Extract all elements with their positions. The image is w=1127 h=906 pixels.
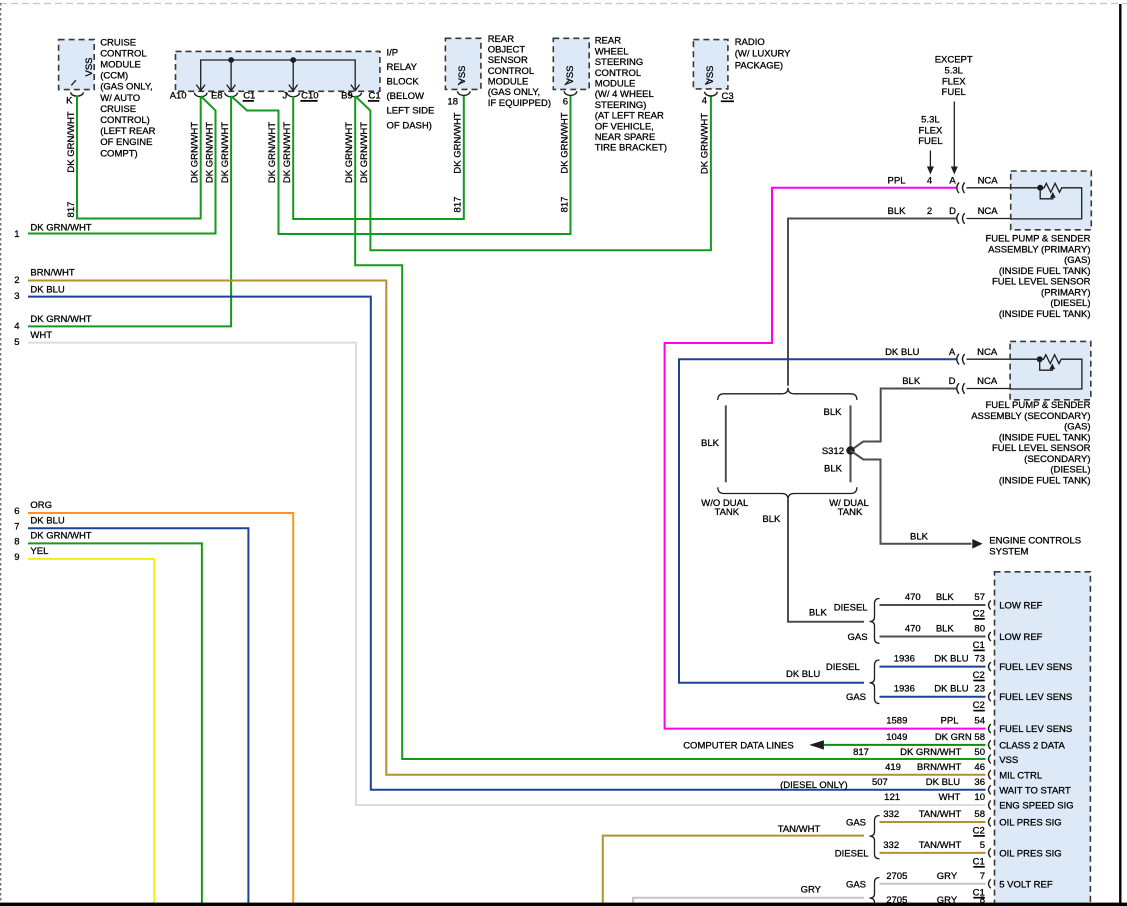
svg-text:1: 1 <box>14 229 19 240</box>
svg-text:LOW REF: LOW REF <box>999 601 1042 612</box>
wire 4 DK GRN/WHT from left to relay E8 <box>14 96 231 332</box>
label W/ DUAL TANK <box>829 498 869 518</box>
connector arc pin 54 <box>989 724 991 733</box>
svg-text:CONTROL: CONTROL <box>100 48 146 59</box>
page frame left <box>0 3 2 906</box>
wire BLK gas LOW REF row to PCM pin 80 <box>880 624 986 637</box>
svg-text:FLEX: FLEX <box>919 125 943 136</box>
svg-text:J: J <box>283 90 288 101</box>
wire DK BLU from secondary fuel pump pin A to PCM FUEL LEV SENS brace <box>679 347 957 683</box>
svg-text:DK BLU: DK BLU <box>885 347 919 358</box>
wire 1 DK GRN/WHT from left into relay A10 <box>14 96 215 240</box>
wire DK BLU diesel FUEL LEV SENS row to PCM pin 73 <box>880 654 986 667</box>
svg-text:A: A <box>949 176 956 187</box>
wire 6 ORG from left to bottom edge <box>14 500 293 906</box>
svg-text:6: 6 <box>563 97 568 108</box>
svg-text:C2: C2 <box>973 609 985 620</box>
svg-text:OF DASH): OF DASH) <box>387 120 432 131</box>
svg-text:C2: C2 <box>973 826 985 837</box>
wire DK GRN/WHT relay B9 to PCM VSS pin 50 <box>344 96 986 759</box>
svg-text:S312: S312 <box>822 446 844 457</box>
svg-text:5.3L: 5.3L <box>921 115 940 126</box>
connector label C3 <box>721 91 734 102</box>
svg-text:DIESEL: DIESEL <box>834 603 868 614</box>
svg-text:SYSTEM: SYSTEM <box>989 547 1028 558</box>
I/P relay block text label <box>387 48 435 132</box>
svg-text:(INSIDE FUEL TANK): (INSIDE FUEL TANK) <box>999 475 1091 486</box>
svg-text:332: 332 <box>883 840 899 851</box>
wire BLK w/ dual tank lower branch <box>824 455 850 483</box>
arrowhead to engine controls system <box>972 539 982 549</box>
connector label C2 (pin 23) <box>973 700 985 711</box>
svg-text:TANK: TANK <box>714 507 739 518</box>
svg-text:C3: C3 <box>722 91 734 102</box>
svg-text:D: D <box>949 206 956 217</box>
svg-text:BLK: BLK <box>809 607 828 618</box>
svg-text:OF VEHICLE,: OF VEHICLE, <box>595 121 654 132</box>
svg-text:PPL: PPL <box>888 176 906 187</box>
page frame top <box>0 3 1127 5</box>
NCA stub at primary pin D <box>967 206 1011 219</box>
pin K of CCM <box>66 92 83 106</box>
connector arc pin 23 <box>989 692 991 701</box>
svg-text:ASSEMBLY (SECONDARY): ASSEMBLY (SECONDARY) <box>971 411 1090 422</box>
svg-text:73: 73 <box>974 654 985 665</box>
NCA stub at secondary pin D <box>967 376 1011 388</box>
arrowhead to pin E8 <box>227 85 236 91</box>
svg-text:1589: 1589 <box>886 716 907 727</box>
svg-text:507: 507 <box>872 777 888 788</box>
svg-text:DK GRN/WHT: DK GRN/WHT <box>559 112 570 173</box>
svg-text:MIL CTRL: MIL CTRL <box>999 770 1042 781</box>
svg-text:4: 4 <box>14 321 19 332</box>
svg-text:BLK: BLK <box>936 624 955 635</box>
connector arcs at secondary pin A <box>957 354 965 365</box>
primary fuel pump and sender assembly box <box>1011 171 1092 230</box>
svg-text:CONTROL: CONTROL <box>488 66 534 77</box>
wire GRY gas 5 VOLT REF row to PCM pin 7 <box>880 871 986 884</box>
pin 18 of rear object sensor <box>447 91 470 107</box>
svg-text:FUEL PUMP & SENDER: FUEL PUMP & SENDER <box>985 400 1090 411</box>
svg-text:REAR: REAR <box>488 34 515 45</box>
svg-text:BLK: BLK <box>762 514 781 525</box>
svg-text:DK GRN/WHT: DK GRN/WHT <box>30 223 91 234</box>
svg-text:5: 5 <box>980 840 985 851</box>
svg-text:WHT: WHT <box>30 330 52 341</box>
wire BLK diesel LOW REF row to PCM pin 57 <box>880 592 986 605</box>
svg-text:50: 50 <box>974 747 985 758</box>
arrowhead to pin J <box>289 85 298 91</box>
svg-text:2: 2 <box>14 275 19 286</box>
svg-text:A10: A10 <box>170 90 187 101</box>
label 5.3L FLEX FUEL with arrow <box>918 115 943 175</box>
svg-text:GAS: GAS <box>846 879 866 890</box>
connector arc pin 57 <box>989 601 991 610</box>
secondary fuel pump and sender assembly box <box>1010 341 1091 399</box>
labels on VSS row pin 50 <box>853 747 985 758</box>
page frame right black line <box>1119 4 1121 906</box>
svg-text:BLK: BLK <box>824 407 843 418</box>
connector arcs at primary pin A <box>957 183 965 194</box>
svg-text:TAN/WHT: TAN/WHT <box>919 809 962 820</box>
svg-text:470: 470 <box>905 592 921 603</box>
rear wheel steering text label <box>595 36 667 154</box>
svg-text:(AT LEFT REAR: (AT LEFT REAR <box>595 111 664 122</box>
svg-text:C2: C2 <box>973 700 985 711</box>
svg-text:419: 419 <box>885 762 901 773</box>
connector label C2 (pin 57) <box>973 609 985 620</box>
connector arc pin 58 oil <box>989 818 991 827</box>
svg-text:3: 3 <box>14 291 19 302</box>
svg-text:5: 5 <box>14 337 19 348</box>
NCA stub at secondary pin A <box>967 347 1011 359</box>
wire 7 DK BLU from left to bottom edge <box>14 516 248 906</box>
svg-text:DK GRN/WHT: DK GRN/WHT <box>267 122 278 183</box>
svg-text:(SECONDARY): (SECONDARY) <box>1024 454 1090 465</box>
brace for FUEL LEV SENS diesel/gas pair <box>826 660 880 704</box>
svg-text:DIESEL: DIESEL <box>826 662 860 673</box>
svg-text:BLK: BLK <box>936 592 955 603</box>
wire PPL from primary fuel pump pin A to PCM FUEL LEV SENS pin 54 <box>665 176 986 729</box>
wire 8 DK GRN/WHT from left to bottom edge <box>14 530 202 906</box>
svg-text:D: D <box>949 376 956 387</box>
svg-text:ENG SPEED SIG: ENG SPEED SIG <box>999 801 1073 812</box>
svg-text:(INSIDE FUEL TANK): (INSIDE FUEL TANK) <box>999 432 1091 443</box>
wire BLK from S312 to engine controls system <box>851 451 972 544</box>
wire BLK w/o dual tank branch <box>701 405 726 482</box>
svg-text:DK GRN/WHT: DK GRN/WHT <box>453 112 464 173</box>
svg-text:4: 4 <box>702 96 707 107</box>
fuel level sensor resistor inside secondary box <box>1010 355 1082 389</box>
svg-text:W/ AUTO: W/ AUTO <box>100 93 140 104</box>
svg-text:(DIESEL ONLY): (DIESEL ONLY) <box>780 780 848 791</box>
svg-text:DK GRN: DK GRN <box>935 732 972 743</box>
svg-text:23: 23 <box>974 684 985 695</box>
svg-text:E8: E8 <box>211 90 223 101</box>
svg-text:5.3L: 5.3L <box>944 65 963 76</box>
label EXCEPT 5.3L FLEX FUEL with arrow <box>935 55 973 175</box>
svg-text:EXCEPT: EXCEPT <box>935 55 973 66</box>
svg-text:NCA: NCA <box>977 347 998 358</box>
fuel level sensor resistor inside primary box <box>1011 183 1082 219</box>
svg-text:C1: C1 <box>243 91 255 102</box>
svg-text:7: 7 <box>14 522 19 533</box>
NCA stub at primary pin A <box>967 176 1011 188</box>
connector arc pin 10 <box>989 801 991 810</box>
svg-text:CLASS 2 DATA: CLASS 2 DATA <box>999 740 1065 751</box>
arrowhead to pin B9 <box>351 85 360 91</box>
svg-text:(LEFT REAR: (LEFT REAR <box>100 126 155 137</box>
svg-text:CONTROL): CONTROL) <box>100 115 150 126</box>
svg-text:9: 9 <box>14 552 19 563</box>
svg-text:CONTROL: CONTROL <box>595 68 641 79</box>
engine controls system text label <box>989 536 1081 558</box>
svg-text:C1: C1 <box>369 91 381 102</box>
module rear object sensor box <box>445 38 481 89</box>
svg-text:COMPT): COMPT) <box>100 148 137 159</box>
svg-text:STEERING: STEERING <box>595 57 644 68</box>
svg-text:DIESEL: DIESEL <box>835 848 869 859</box>
svg-text:NCA: NCA <box>977 376 998 387</box>
wire DK GRN/WHT relay B9 branch to radio pin 4 <box>355 96 711 250</box>
svg-text:TAN/WHT: TAN/WHT <box>919 840 962 851</box>
svg-text:36: 36 <box>974 777 985 788</box>
connector label C2 (pin 73) <box>973 670 985 681</box>
svg-text:PPL: PPL <box>941 716 959 727</box>
svg-text:80: 80 <box>974 624 985 635</box>
svg-text:LOW REF: LOW REF <box>999 632 1042 643</box>
svg-text:54: 54 <box>974 716 985 727</box>
svg-text:COMPUTER DATA LINES: COMPUTER DATA LINES <box>683 740 794 751</box>
rear object sensor text label <box>488 34 551 109</box>
wire GRY from bottom edge to 5 VOLT REF brace <box>633 884 864 906</box>
wire 5 WHT from left to PCM ENG SPEED SIG pin 10 <box>14 330 985 805</box>
connector arc pin 80 <box>989 632 991 641</box>
connector label C1 <box>243 91 256 102</box>
svg-text:GAS: GAS <box>848 632 868 643</box>
svg-text:58: 58 <box>974 732 985 743</box>
svg-text:(W/ LUXURY: (W/ LUXURY <box>735 49 791 60</box>
svg-text:PACKAGE): PACKAGE) <box>735 60 783 71</box>
svg-text:TAN/WHT: TAN/WHT <box>778 824 821 835</box>
svg-text:SENSOR: SENSOR <box>488 55 528 66</box>
svg-text:NCA: NCA <box>978 206 999 217</box>
svg-text:6: 6 <box>14 506 19 517</box>
svg-text:817: 817 <box>853 747 869 758</box>
pin J <box>283 90 300 101</box>
connector arc pin 7 <box>989 879 991 888</box>
connector arcs at primary pin D <box>957 213 965 224</box>
svg-text:BLK: BLK <box>902 376 921 387</box>
wire DK GRN/WHT relay E8 branch to rear wheel steering pin 6 <box>231 96 570 234</box>
svg-text:DK GRN/WHT: DK GRN/WHT <box>204 122 215 183</box>
svg-text:5 VOLT REF: 5 VOLT REF <box>999 879 1053 890</box>
svg-text:DK BLU: DK BLU <box>30 284 64 295</box>
svg-text:57: 57 <box>974 592 985 603</box>
brace for OIL PRES SIG gas/diesel pair <box>835 816 880 860</box>
svg-text:C10: C10 <box>301 91 318 102</box>
wire BLK from secondary fuel pump pin D to S312 <box>852 376 957 450</box>
splice S312 <box>822 446 855 457</box>
svg-text:GAS: GAS <box>846 692 866 703</box>
connector arc pin 58 <box>989 740 991 749</box>
svg-text:DK GRN/WHT: DK GRN/WHT <box>66 111 77 172</box>
connector label C1 (5 volt ref gas) <box>973 887 985 898</box>
connector label C1 (B9) <box>368 91 381 102</box>
svg-text:1936: 1936 <box>894 684 915 695</box>
svg-text:817: 817 <box>559 197 570 213</box>
svg-text:46: 46 <box>974 762 985 773</box>
pin A10 <box>170 90 207 101</box>
module rear wheel steering box <box>553 38 589 89</box>
svg-text:7: 7 <box>980 871 985 882</box>
svg-text:ORG: ORG <box>30 500 52 511</box>
svg-text:FUEL: FUEL <box>918 136 942 147</box>
svg-text:BLK: BLK <box>824 464 843 475</box>
svg-text:DK GRN/WHT: DK GRN/WHT <box>30 314 91 325</box>
svg-text:CRUISE: CRUISE <box>100 104 136 115</box>
wire DK GRN/WHT 817 from CCM pin K to relay block A10 <box>66 96 201 219</box>
svg-text:DK GRN/WHT: DK GRN/WHT <box>700 113 711 174</box>
svg-text:4: 4 <box>927 176 932 187</box>
svg-text:OF ENGINE: OF ENGINE <box>100 137 152 148</box>
svg-text:NCA: NCA <box>978 176 999 187</box>
arrowhead to pin A10 <box>196 85 205 91</box>
svg-text:DK GRN/WHT: DK GRN/WHT <box>220 122 231 183</box>
arrowhead to computer data lines <box>809 740 824 749</box>
svg-text:C1: C1 <box>973 640 985 651</box>
pin B9 <box>341 90 361 101</box>
svg-text:470: 470 <box>905 624 921 635</box>
svg-text:C1: C1 <box>973 856 985 867</box>
wire DK GRN/WHT relay J to rear object sensor pin 18 <box>282 96 464 219</box>
svg-text:TANK: TANK <box>838 507 863 518</box>
svg-text:FUEL LEV SENS: FUEL LEV SENS <box>999 662 1072 673</box>
svg-text:GRY: GRY <box>937 871 958 882</box>
svg-text:DK BLU: DK BLU <box>786 669 820 680</box>
junction dot on bus at E8 <box>228 57 234 63</box>
svg-text:FUEL: FUEL <box>942 87 966 98</box>
svg-text:BLK: BLK <box>701 438 720 449</box>
svg-text:K: K <box>66 96 73 107</box>
svg-text:DK GRN/WHT: DK GRN/WHT <box>344 122 355 183</box>
svg-text:GRY: GRY <box>801 884 822 895</box>
svg-text:B9: B9 <box>341 90 353 101</box>
svg-text:8: 8 <box>14 537 19 548</box>
top brace of dual tank split <box>718 388 857 400</box>
svg-text:A: A <box>949 347 956 358</box>
svg-text:VSS: VSS <box>565 65 576 84</box>
svg-text:RELAY: RELAY <box>387 62 418 73</box>
I/P relay block box <box>176 51 380 91</box>
wire TAN/WHT gas OIL PRES SIG row to PCM pin 58 <box>880 809 986 822</box>
svg-text:BRN/WHT: BRN/WHT <box>917 762 962 773</box>
wire TAN/WHT diesel OIL PRES SIG row to PCM pin 5 <box>880 840 986 853</box>
svg-text:DK GRN/WHT: DK GRN/WHT <box>282 122 293 183</box>
svg-text:DK BLU: DK BLU <box>926 777 960 788</box>
labels on PPL FUEL LEV SENS row pin 54 <box>886 716 985 727</box>
connector arcs at secondary pin D <box>957 383 965 394</box>
svg-text:STEERING): STEERING) <box>595 100 647 111</box>
svg-text:OIL PRES SIG: OIL PRES SIG <box>999 848 1061 859</box>
module CCM box <box>59 40 95 90</box>
svg-text:(GAS ONLY,: (GAS ONLY, <box>488 87 540 98</box>
svg-text:(INSIDE FUEL TANK): (INSIDE FUEL TANK) <box>999 266 1091 277</box>
svg-text:LEFT SIDE: LEFT SIDE <box>387 106 435 117</box>
svg-text:817: 817 <box>66 202 77 218</box>
svg-text:BRN/WHT: BRN/WHT <box>30 268 75 279</box>
PCM box <box>995 572 1091 906</box>
svg-text:TIRE BRACKET): TIRE BRACKET) <box>595 143 667 154</box>
svg-text:18: 18 <box>447 97 458 108</box>
svg-text:WHT: WHT <box>939 792 961 803</box>
secondary fuel pump text label <box>971 400 1090 486</box>
wire BLK from bottom brace to PCM LOW REF brace <box>762 500 864 622</box>
svg-text:817: 817 <box>453 197 464 213</box>
svg-text:(CCM): (CCM) <box>100 71 128 82</box>
svg-text:REAR: REAR <box>595 36 622 47</box>
svg-text:VSS: VSS <box>84 57 95 76</box>
svg-text:OBJECT: OBJECT <box>488 45 526 56</box>
svg-text:FUEL LEV SENS: FUEL LEV SENS <box>999 692 1072 703</box>
svg-text:(W/ 4 WHEEL: (W/ 4 WHEEL <box>595 89 654 100</box>
connector arc pin 46 <box>989 770 991 779</box>
wire BLK from primary fuel pump pin D to S312 splice brace <box>788 206 957 386</box>
wire 2 BRN/WHT from left to PCM MIL CTRL pin 46 <box>14 268 985 775</box>
CCM text label <box>100 37 155 159</box>
svg-text:DK GRN/WHT: DK GRN/WHT <box>189 122 200 183</box>
svg-text:332: 332 <box>883 809 899 820</box>
wire BLK w/ dual tank upper branch <box>824 405 851 446</box>
svg-text:(GAS ONLY,: (GAS ONLY, <box>100 82 152 93</box>
svg-text:1936: 1936 <box>894 654 915 665</box>
connector arc pin 36 <box>989 785 991 794</box>
svg-text:FUEL LEVEL SENSOR: FUEL LEVEL SENSOR <box>992 443 1091 454</box>
svg-text:WAIT TO START: WAIT TO START <box>999 785 1071 796</box>
svg-text:BLK: BLK <box>910 532 929 543</box>
svg-text:ASSEMBLY (PRIMARY): ASSEMBLY (PRIMARY) <box>988 244 1090 255</box>
page bottom black bar <box>0 903 1127 906</box>
partial bottom row labels 2705 GRY 8 <box>886 895 985 906</box>
svg-text:2: 2 <box>927 206 932 217</box>
svg-text:NEAR SPARE: NEAR SPARE <box>595 132 656 143</box>
svg-text:ENGINE CONTROLS: ENGINE CONTROLS <box>989 536 1081 547</box>
internal bus of relay block <box>201 60 356 84</box>
wire 3 DK BLU from left to PCM WAIT TO START pin 36 <box>14 284 985 791</box>
connector label C2 (oil pres gas) <box>973 826 985 837</box>
svg-text:VSS: VSS <box>457 65 468 84</box>
svg-text:VSS: VSS <box>999 755 1018 766</box>
svg-text:(PRIMARY): (PRIMARY) <box>1041 287 1090 298</box>
svg-text:C2: C2 <box>973 670 985 681</box>
wire TAN/WHT from bottom edge to OIL PRES SIG brace <box>603 824 864 906</box>
svg-text:MODULE: MODULE <box>595 79 636 90</box>
pin E8 <box>211 90 237 101</box>
svg-text:DK GRN/WHT: DK GRN/WHT <box>30 530 91 541</box>
module radio box <box>693 40 728 89</box>
brace for 5 VOLT REF gas pair <box>846 878 880 906</box>
svg-text:I/P: I/P <box>387 48 399 59</box>
svg-text:FUEL LEV SENS: FUEL LEV SENS <box>999 724 1072 735</box>
connector label C10 <box>300 91 318 102</box>
svg-text:1049: 1049 <box>886 732 907 743</box>
svg-text:BLK: BLK <box>888 206 907 217</box>
svg-text:IF EQUIPPED): IF EQUIPPED) <box>488 98 551 109</box>
wire DK BLU gas FUEL LEV SENS row to PCM pin 23 <box>880 684 986 697</box>
svg-text:DK BLU: DK BLU <box>30 516 64 527</box>
svg-text:DK BLU: DK BLU <box>934 654 968 665</box>
wire 9 YEL from left to bottom edge <box>14 546 154 906</box>
svg-text:DK GRN/WHT: DK GRN/WHT <box>359 122 370 183</box>
label W/O DUAL TANK <box>701 498 748 518</box>
svg-text:CRUISE: CRUISE <box>100 37 136 48</box>
pin 6 of rear wheel steering <box>563 91 577 107</box>
svg-text:BLOCK: BLOCK <box>387 77 420 88</box>
connector label C1 (oil pres diesel) <box>973 856 985 867</box>
svg-text:VSS: VSS <box>705 65 716 84</box>
svg-text:FUEL PUMP & SENDER: FUEL PUMP & SENDER <box>985 234 1090 245</box>
svg-text:MODULE: MODULE <box>488 77 529 88</box>
svg-text:(GAS): (GAS) <box>1064 255 1090 266</box>
svg-text:OIL PRES SIG: OIL PRES SIG <box>999 818 1061 829</box>
connector arc pin 73 <box>989 662 991 671</box>
bottom brace of dual tank split <box>718 487 857 499</box>
svg-text:GAS: GAS <box>846 818 866 829</box>
svg-text:DK GRN/WHT: DK GRN/WHT <box>900 747 961 758</box>
svg-text:(DIESEL): (DIESEL) <box>1050 298 1090 309</box>
svg-text:FUEL LEVEL SENSOR: FUEL LEVEL SENSOR <box>992 277 1091 288</box>
radio text label <box>735 37 791 72</box>
